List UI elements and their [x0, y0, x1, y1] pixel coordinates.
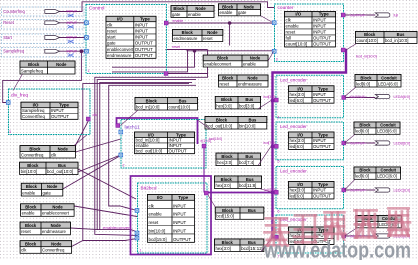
svg-text:clk: clk	[93, 113, 98, 117]
pin connector Led_encoder U7 led out	[342, 234, 346, 238]
wire Led_encoder U6 led out	[346, 189, 376, 191]
pin connector Control reset	[85, 21, 89, 25]
svg-text:Block: Block	[222, 76, 234, 81]
pin connector latch11 enable2	[119, 153, 123, 157]
svg-text:bcd_in[10:0]: bcd_in[10:0]	[136, 104, 159, 109]
wire full out	[345, 14, 375, 16]
svg-text:reset: reset	[286, 30, 297, 35]
svg-text:bcd_out[10:0]: bcd_out[10:0]	[206, 123, 232, 128]
pin connector Led_encoder U4 led out	[342, 96, 346, 100]
bus junction led2	[271, 145, 274, 148]
wire Samplefreq to Control clk	[60, 50, 87, 52]
svg-text:led[6:0]: led[6:0]	[356, 81, 370, 86]
svg-text:Block: Block	[173, 6, 185, 11]
svg-text:Bus: Bus	[248, 240, 256, 245]
svg-text:INPUT: INPUT	[169, 143, 182, 148]
svg-text:Block: Block	[25, 223, 37, 228]
map table hex-bcd30	[215, 96, 260, 109]
svg-text:INPUT: INPUT	[135, 29, 148, 34]
svg-text:reset: reset	[220, 81, 230, 86]
bus junction led3	[271, 191, 274, 194]
svg-text:enable: enable	[243, 61, 257, 66]
svg-text:led[6:0]: led[6:0]	[355, 129, 369, 134]
svg-text:full: full	[286, 36, 292, 41]
pin connector div_freq out	[86, 117, 90, 121]
wire net A around control to Bit2bcd	[95, 74, 208, 236]
svg-text:Conduit: Conduit	[381, 168, 397, 173]
svg-text:Node: Node	[51, 223, 62, 228]
wire endmeasure from Control corner	[168, 50, 208, 74]
wire Led_encoder U5 led out	[346, 142, 376, 144]
pin connector Control gate out	[164, 21, 168, 25]
pin connector Led_encoder U4 hex in	[274, 98, 278, 102]
svg-text:Start: Start	[3, 35, 13, 40]
map table count-bcd_in	[356, 32, 418, 44]
svg-text:Block: Block	[25, 205, 37, 210]
pin connector counter reset	[272, 49, 276, 53]
svg-text:reset: reset	[107, 29, 118, 34]
svg-text:INPUT: INPUT	[313, 30, 326, 35]
svg-text:count[10:0]: count[10:0]	[286, 42, 308, 47]
svg-text:INPUT: INPUT	[313, 92, 326, 97]
svg-text:led[6:0]: led[6:0]	[290, 98, 304, 103]
svg-text:Block: Block	[222, 240, 234, 245]
svg-text:led[6:0]: led[6:0]	[290, 194, 304, 199]
svg-text:Block: Block	[25, 242, 37, 247]
svg-text:Block: Block	[182, 30, 194, 35]
svg-text:hex[3:0]: hex[3:0]	[217, 160, 232, 165]
svg-text:bcd_out[10:0]: bcd_out[10:0]	[136, 148, 163, 153]
svg-text:gate: gate	[43, 190, 52, 195]
svg-text:INPUT: INPUT	[313, 24, 326, 29]
block Led_encoder U5	[276, 122, 344, 163]
svg-text:endmeasure: endmeasure	[42, 229, 66, 234]
svg-text:INPUT: INPUT	[173, 220, 186, 225]
wire Convertfreq diag	[72, 241, 83, 247]
svg-text:Bit2bcd: Bit2bcd	[141, 185, 157, 191]
bus Bit2bcd bcd out to trunk	[206, 192, 273, 194]
pin connector div_freq in	[6, 101, 10, 105]
svg-text:hex[3:0]: hex[3:0]	[216, 183, 231, 188]
svg-text:INPUT: INPUT	[313, 138, 326, 143]
map table led-LEDB	[354, 122, 400, 134]
svg-text:Led_encoder: Led_encoder	[280, 169, 307, 174]
svg-text:enable: enable	[173, 19, 184, 23]
svg-text:enable: enable	[286, 24, 300, 29]
svg-text:endmeasure: endmeasure	[174, 36, 198, 41]
svg-text:Control: Control	[89, 5, 104, 11]
svg-text:enable: enable	[149, 212, 163, 217]
svg-text:Bus: Bus	[249, 117, 257, 122]
svg-text:led[6:0]: led[6:0]	[355, 174, 369, 179]
junction enable net	[228, 21, 232, 25]
input pin Start	[2, 34, 85, 44]
svg-text:enableconvert: enableconvert	[103, 226, 131, 230]
svg-text:Type: Type	[318, 182, 328, 187]
output pin LEDA	[349, 95, 410, 99]
svg-text:5: 5	[278, 159, 280, 163]
svg-text:Node: Node	[58, 146, 69, 151]
svg-text:gate: gate	[172, 12, 181, 17]
svg-text:clk: clk	[149, 203, 155, 208]
map table bin-bcd_out	[20, 162, 78, 174]
map table hex-bcd1512	[215, 239, 264, 252]
svg-text:enableconvert: enableconvert	[107, 47, 134, 52]
map table led-LEDD	[356, 216, 402, 228]
bus junction led1	[271, 99, 274, 102]
svg-text:hex[3:0]: hex[3:0]	[216, 103, 231, 108]
svg-text:Block: Block	[221, 154, 233, 159]
svg-text:LEDC[6:0]: LEDC[6:0]	[377, 174, 397, 179]
svg-text:6: 6	[278, 210, 280, 214]
svg-text:reset: reset	[149, 220, 160, 225]
svg-text:OUTPUT: OUTPUT	[51, 114, 69, 119]
svg-text:bcd_out[10:0]: bcd_out[10:0]	[47, 169, 73, 174]
svg-text:INPUT: INPUT	[313, 188, 326, 193]
svg-text:I/O: I/O	[157, 195, 163, 200]
svg-text:hex[3:0]: hex[3:0]	[216, 246, 231, 251]
wire Start to Control	[60, 37, 87, 39]
svg-text:LEDB[6:0]: LEDB[6:0]	[377, 129, 397, 134]
map table reset-endmeasure right	[219, 75, 269, 87]
wire bcd_out table diag	[78, 155, 121, 172]
svg-text:hex[3:0]: hex[3:0]	[290, 188, 306, 193]
map table bcd_in-count	[135, 98, 198, 111]
svg-text:Node: Node	[244, 4, 255, 9]
svg-text:latch11: latch11	[125, 125, 140, 131]
svg-text:clk: clk	[51, 152, 57, 157]
svg-text:Bus: Bus	[248, 208, 256, 213]
block Led_encoder U4	[276, 75, 344, 119]
pin connector counter count out	[341, 48, 345, 52]
svg-text:INPUT: INPUT	[135, 35, 148, 40]
svg-text:Type: Type	[318, 86, 328, 91]
input pin Samplefreq	[2, 48, 85, 58]
svg-text:enable: enable	[136, 143, 150, 148]
svg-text:Type: Type	[178, 195, 188, 200]
svg-text:clk: clk	[107, 22, 113, 27]
block latch11	[121, 120, 206, 169]
svg-text:clk: clk	[21, 248, 27, 253]
svg-text:INPUT: INPUT	[51, 108, 64, 113]
svg-text:1: 1	[140, 249, 142, 253]
svg-text:Node: Node	[195, 6, 206, 11]
svg-text:Bus: Bus	[246, 177, 254, 182]
svg-text:Conduit: Conduit	[380, 123, 396, 128]
svg-text:I/O: I/O	[297, 86, 303, 91]
svg-text:Block: Block	[146, 98, 158, 103]
map table led-LEDC	[354, 167, 401, 179]
svg-text:OUTPUT: OUTPUT	[135, 47, 153, 52]
bus latch11 out down to bcd bus	[203, 148, 205, 193]
svg-text:Block: Block	[221, 97, 233, 102]
pin connector Control clk	[85, 49, 89, 53]
svg-text:Type: Type	[318, 228, 328, 233]
pin connector Led_encoder U7 hex in	[274, 235, 278, 239]
map table Samplefreq	[20, 61, 75, 74]
wire enable-gate diag to latch	[63, 156, 121, 190]
pin connector Bit2bcd bcd out	[204, 191, 208, 195]
svg-text:bcd[11..8]: bcd[11..8]	[265, 188, 277, 192]
wire Led_encoder U4 led out	[346, 97, 376, 99]
svg-text:Block: Block	[222, 208, 234, 213]
svg-text:OUTPUT: OUTPUT	[313, 194, 331, 199]
svg-text:div_freq: div_freq	[11, 92, 28, 98]
output pin LEDC	[349, 188, 410, 192]
map table bcd150	[215, 207, 263, 219]
svg-text:bcd[15:0]: bcd[15:0]	[209, 137, 222, 141]
svg-text:Bus: Bus	[245, 154, 253, 159]
svg-text:count[10:0]: count[10:0]	[357, 38, 378, 43]
svg-text:hex[3:0]: hex[3:0]	[290, 138, 306, 143]
junction Samplefreq	[80, 49, 84, 53]
svg-text:Node: Node	[207, 30, 218, 35]
output pin LEDD	[349, 234, 410, 238]
block counter	[275, 4, 344, 62]
table link lines	[13, 74, 23, 91]
svg-text:bcd[7:4]: bcd[7:4]	[239, 160, 254, 165]
svg-text:OUTPUT: OUTPUT	[173, 237, 191, 242]
svg-text:bcd_in[10:0]: bcd_in[10:0]	[136, 138, 160, 143]
svg-text:Convertfreq: Convertfreq	[22, 114, 45, 119]
svg-text:start: start	[107, 35, 116, 40]
wire endmeasure diag	[70, 228, 98, 230]
svg-text:count[10:0]: count[10:0]	[169, 104, 190, 109]
svg-text:INPUT: INPUT	[173, 212, 186, 217]
svg-text:INPUT: INPUT	[169, 138, 182, 143]
block Control	[86, 5, 167, 74]
map table reset-endmeasure left	[20, 222, 70, 235]
svg-text:OUTPUT: OUTPUT	[135, 53, 153, 58]
svg-text:OUTPUT: OUTPUT	[135, 41, 153, 46]
input pin Reset	[2, 20, 85, 30]
map table clk-Convertfreq	[20, 241, 72, 254]
svg-text:Bus: Bus	[179, 98, 187, 103]
svg-text:I/O: I/O	[297, 182, 303, 187]
svg-text:led[6:0]: led[6:0]	[290, 144, 304, 149]
junction reset net	[193, 49, 197, 53]
svg-text:bin[10:0]: bin[10:0]	[239, 123, 256, 128]
wire reset net Control to counter	[166, 49, 208, 51]
pin connector Bit2bcd enable	[135, 231, 139, 235]
wire diag T3 down	[78, 169, 136, 199]
svg-text:Type: Type	[59, 103, 69, 108]
svg-text:Block: Block	[216, 117, 228, 122]
svg-text:Block: Block	[221, 177, 233, 182]
svg-text:gate: gate	[107, 41, 116, 46]
map table led-LEDA	[355, 75, 401, 88]
wire Counterfreq to counter clk	[60, 2, 275, 12]
map table Convertfreq-clk	[20, 146, 75, 158]
pin connector Control start	[85, 36, 89, 40]
svg-text:Bus: Bus	[245, 97, 253, 102]
svg-text:Block: Block	[364, 32, 376, 37]
svg-text:Node: Node	[52, 205, 63, 210]
svg-text:bcd_in[10:0]: bcd_in[10:0]	[356, 55, 377, 59]
svg-text:Conduit: Conduit	[381, 75, 397, 80]
pin connector Led_encoder U5 hex in	[274, 144, 278, 148]
map table hex-bcd74	[216, 153, 261, 166]
map table bcd_out-bin	[205, 117, 267, 130]
svg-text:Samplefreq: Samplefreq	[21, 68, 44, 73]
svg-text:I/O: I/O	[295, 12, 301, 17]
pin connector Bit2bcd bin	[135, 236, 139, 240]
svg-text:Samplefreq: Samplefreq	[3, 49, 25, 54]
svg-text:bcd[11:8]: bcd[11:8]	[239, 183, 256, 188]
svg-text:1: 1	[88, 69, 90, 73]
svg-text:Node: Node	[47, 184, 58, 189]
svg-text:Convertfreq: Convertfreq	[42, 248, 65, 253]
svg-text:Block: Block	[359, 123, 371, 128]
input pin Counterfreq	[2, 7, 85, 18]
bus count to bcd trunk	[273, 50, 347, 237]
map table enableconvert-enable	[203, 55, 268, 67]
svg-text:bcd_in[10:0]: bcd_in[10:0]	[385, 38, 408, 43]
svg-text:OUTPUT: OUTPUT	[313, 98, 331, 103]
svg-text:Block: Block	[29, 146, 41, 151]
svg-text:Led_encoder: Led_encoder	[280, 124, 307, 129]
svg-text:LEDB[6:0]: LEDB[6:0]	[394, 141, 410, 145]
svg-text:I/O: I/O	[33, 103, 39, 108]
svg-text:LEDA[6:0]: LEDA[6:0]	[394, 95, 410, 99]
wire Samplefreq branch to div_freq	[3, 51, 82, 102]
svg-text:Block: Block	[222, 4, 234, 9]
pin connector Control endmeasure out	[164, 72, 168, 76]
svg-text:OUTPUT: OUTPUT	[313, 36, 331, 41]
svg-text:Node: Node	[56, 62, 67, 67]
map table enable-gate left	[21, 183, 63, 196]
svg-text:Type: Type	[319, 12, 329, 17]
svg-text:enableconvert: enableconvert	[42, 211, 70, 216]
svg-text:bcd[3:0]: bcd[3:0]	[239, 103, 254, 108]
svg-text:hex[3:0]: hex[3:0]	[290, 92, 306, 97]
svg-text:Block: Block	[28, 62, 40, 67]
svg-text:bin[10:0]: bin[10:0]	[149, 229, 166, 234]
selection box Bit2bcd	[131, 176, 212, 255]
svg-text:OUTPUT: OUTPUT	[313, 42, 331, 47]
svg-text:bcd[15:0]: bcd[15:0]	[216, 214, 234, 219]
wire enable branch down	[229, 23, 231, 46]
svg-text:Type: Type	[140, 17, 150, 22]
svg-text:endmeasure: endmeasure	[238, 81, 262, 86]
svg-text:bcd[3..0]: bcd[3..0]	[264, 95, 276, 99]
svg-text:OUTPUT: OUTPUT	[313, 144, 331, 149]
output pin full	[349, 13, 398, 17]
svg-text:enableconvert: enableconvert	[204, 61, 232, 66]
svg-text:Bus: Bus	[397, 32, 405, 37]
svg-text:Block: Block	[217, 56, 229, 61]
block div_freq	[9, 89, 91, 135]
pin connector Led_encoder U6 led out	[342, 188, 346, 192]
svg-text:INPUT: INPUT	[173, 203, 186, 208]
svg-text:Block: Block	[26, 184, 38, 189]
svg-text:INPUT: INPUT	[173, 229, 186, 234]
svg-text:LEDC[6:0]: LEDC[6:0]	[394, 188, 411, 192]
svg-text:enable: enable	[22, 211, 36, 216]
map table hex-bcd118	[215, 176, 262, 189]
svg-text:reset: reset	[203, 36, 213, 41]
svg-text:Block: Block	[360, 75, 372, 80]
pin connector counter clk	[272, 21, 276, 25]
svg-text:INPUT: INPUT	[135, 22, 148, 27]
svg-text:counter: counter	[278, 5, 294, 11]
svg-text:Type: Type	[318, 133, 328, 138]
wire net B to Bit2bcd enable	[97, 80, 196, 232]
wire div_freq clk out diagonal	[75, 121, 88, 146]
svg-text:clk: clk	[286, 18, 292, 23]
wire Reset to Control	[60, 22, 87, 24]
map table endmeasure-reset	[173, 30, 223, 42]
svg-text:3: 3	[9, 130, 11, 134]
svg-text:bcd[15:0]: bcd[15:0]	[149, 237, 167, 242]
block Bit2bcd	[138, 183, 208, 253]
map table enable-gate	[219, 4, 261, 16]
pin connector Bit2bcd clk	[135, 209, 139, 213]
pin connector counter full out	[341, 13, 345, 17]
svg-text:I/O: I/O	[297, 133, 303, 138]
svg-text:Bus: Bus	[58, 163, 66, 168]
svg-text:endmeasure: endmeasure	[107, 53, 132, 58]
block Led_encoder U6	[276, 167, 344, 214]
svg-text:bcd[7..4]: bcd[7..4]	[264, 141, 276, 145]
pin connector Led_encoder U5 led out	[342, 141, 346, 145]
map table enable-enableconvert	[21, 204, 75, 217]
svg-text:Block: Block	[27, 163, 39, 168]
svg-text:LEDA[6:0]: LEDA[6:0]	[378, 81, 398, 86]
svg-text:enable: enable	[22, 190, 36, 195]
svg-text:OUTPUT: OUTPUT	[169, 148, 187, 153]
svg-text:Node: Node	[250, 56, 261, 61]
wire net C to Bit2bcd clk	[83, 84, 189, 241]
svg-text:bin[10:0]: bin[10:0]	[21, 169, 37, 174]
svg-text:enable: enable	[188, 12, 202, 17]
wire enable net Control to counter	[167, 22, 273, 24]
output pin LEDB	[349, 141, 410, 145]
svg-text:Samplefreq: Samplefreq	[22, 108, 45, 113]
watermark chinese characters	[263, 207, 411, 247]
map table gate-enable	[171, 6, 214, 18]
wire Led_encoder U7 led out	[346, 235, 376, 237]
pin connector latch11 bcd_out	[202, 144, 206, 148]
wire reset branch down-left	[112, 51, 195, 67]
bus latch11 bcd_in loop	[117, 118, 198, 144]
pin connector latch11 bcd_in	[116, 124, 120, 128]
wire enableconvert diag	[74, 206, 137, 217]
svg-text:Block: Block	[359, 168, 371, 173]
svg-text:2: 2	[123, 164, 125, 168]
svg-text:reset: reset	[172, 45, 180, 49]
pin connector Led_encoder U6 hex in	[274, 190, 278, 194]
svg-text:bcd[15:12]: bcd[15:12]	[241, 246, 263, 251]
svg-text:Led_encoder: Led_encoder	[280, 77, 307, 82]
svg-text:www.edatop.com: www.edatop.com	[263, 238, 411, 261]
pin connector latch11 enable	[119, 130, 123, 134]
svg-text:Convertfreq: Convertfreq	[21, 152, 44, 157]
block Led_encoder U7	[276, 215, 344, 259]
svg-text:Counterfreq: Counterfreq	[3, 9, 25, 14]
svg-text:gate: gate	[238, 10, 247, 15]
wire clk to latch diag	[75, 139, 120, 152]
svg-text:INPUT: INPUT	[313, 18, 326, 23]
wire net B2	[100, 82, 192, 229]
svg-text:Node: Node	[247, 76, 258, 81]
svg-text:Reset: Reset	[3, 20, 15, 25]
svg-text:Node: Node	[51, 242, 62, 247]
wire net D	[109, 85, 196, 210]
svg-text:full: full	[394, 13, 399, 17]
svg-text:reset: reset	[21, 229, 31, 234]
svg-text:4: 4	[278, 116, 280, 120]
